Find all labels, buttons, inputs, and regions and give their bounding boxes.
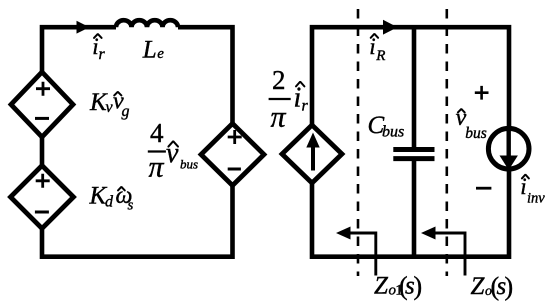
wire: capacitor branch lower [412,161,417,257]
label i_r hat [94,34,102,38]
minus sign of Kd*ws [35,211,49,214]
svg-text:L: L [142,36,157,63]
minus sign of Kv*vg [35,117,49,120]
dashed line: Zo1 measurement boundary [357,9,360,276]
wire: capacitor branch upper [412,27,417,147]
svg-text:i: i [294,82,302,113]
svg-text:R: R [375,48,385,64]
capacitor Cbus bottom plate [393,156,434,161]
label vbus hat [458,109,465,113]
dependent source Kd*ws (diamond) [11,166,74,229]
hat of vg [114,92,121,96]
capacitor Cbus top plate [393,147,434,152]
svg-text:g: g [122,103,130,120]
svg-text:Z: Z [374,273,389,300]
label minus of vbus [476,187,491,190]
dashed line: Zo measurement boundary [445,9,448,276]
svg-text:i: i [369,34,375,59]
dependent current source 2/pi ir (diamond) [282,125,342,183]
label iR hat [371,34,378,38]
svg-text:π: π [149,151,165,184]
fraction bar of 2/pi [269,98,291,100]
wire: right mesh outline [312,27,509,257]
plus sign of Kd*ws [36,174,50,188]
plus sign of 4/pi vbus [228,130,242,144]
svg-text:): ) [505,272,514,301]
dependent source Kv*vg (diamond) [11,72,73,137]
svg-text:bus: bus [382,124,404,141]
svg-text:i: i [520,174,526,199]
svg-text:): ) [414,272,423,301]
svg-text:e: e [157,46,164,62]
svg-text:2: 2 [272,65,286,95]
svg-text:inv: inv [527,191,545,207]
probe arrow for Zo1 [340,233,376,276]
current source i_inv (circle) [488,128,529,169]
wire: left mesh outline [42,27,233,257]
dependent source 4/pi vbus (diamond) [201,124,264,186]
svg-text:π: π [271,101,287,134]
svg-text:d: d [105,194,114,211]
label ir hat [296,82,304,87]
fraction bar of 4/pi [148,150,166,152]
hat of ws [118,187,125,191]
arrow inside current source (up) [311,145,315,171]
svg-text:bus: bus [465,125,487,142]
plus sign of Kv*vg [36,82,50,96]
svg-text:r: r [99,46,106,63]
hat of vbus [168,141,178,146]
arrow inside i_inv (down) [507,127,511,156]
inductor Le [116,20,178,27]
svg-text:Z: Z [471,273,486,300]
probe arrow for Zo [426,233,466,276]
label i_inv hat [522,175,529,179]
label plus of vbus [475,86,489,100]
svg-text:r: r [302,98,309,115]
arrow: current iR on top wire [383,20,398,35]
minus sign of 4/pi vbus [228,168,241,171]
arrow: current direction i_r on top wire [77,21,90,34]
svg-text:4: 4 [150,118,164,148]
svg-text:bus: bus [180,157,198,172]
svg-text:s: s [128,198,134,214]
